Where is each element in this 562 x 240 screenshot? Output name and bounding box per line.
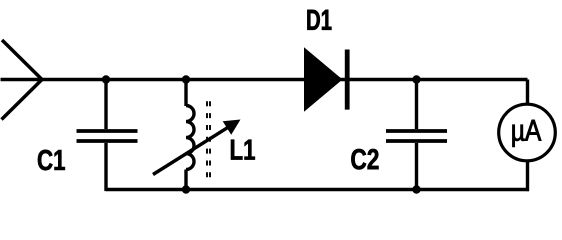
meter M1 (microammeter) [499, 104, 556, 161]
label uA inside meter [512, 120, 541, 147]
wire: L1 branch vertical stubs [184, 80, 187, 190]
wire: bottom rail [106, 188, 529, 191]
label L1 [231, 140, 255, 160]
label C1 [38, 150, 65, 171]
label D1 [307, 10, 331, 30]
label C2 [351, 149, 378, 170]
inductor L1 adjustable core (dashed) [207, 101, 210, 178]
antenna [2, 40, 43, 120]
node: junction top of C1 [102, 75, 110, 83]
capacitor C2 [386, 131, 447, 141]
node: junction top of L1 [182, 75, 190, 83]
wire: C1 branch vertical [104, 80, 107, 192]
inductor L1 coil [186, 106, 194, 170]
diode D1 cathode bar [345, 50, 350, 110]
node: junction bottom of C2 [412, 185, 420, 193]
diode D1 anode triangle [304, 47, 343, 111]
variable arrow across L1 [153, 120, 241, 175]
wire: meter drop right side [526, 80, 529, 192]
capacitor C1 [77, 131, 138, 141]
node: junction bottom of L1 [182, 185, 190, 193]
wire: top rail from antenna feed to meter drop [1, 78, 528, 81]
node: junction top of C2 [412, 75, 420, 83]
wire: C2 branch vertical [415, 80, 418, 190]
